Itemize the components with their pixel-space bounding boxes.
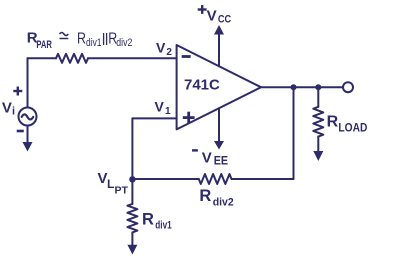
svg-text:PAR: PAR — [36, 39, 52, 51]
svg-text:R: R — [327, 114, 339, 131]
svg-text:CC: CC — [218, 14, 231, 26]
svg-text:R: R — [77, 30, 86, 47]
svg-text:div1: div1 — [155, 220, 171, 232]
svg-text:PT: PT — [115, 185, 129, 197]
svg-text:V: V — [202, 149, 212, 166]
svg-text:R: R — [199, 187, 211, 205]
svg-text:div2: div2 — [116, 37, 132, 49]
svg-text:div2: div2 — [213, 196, 234, 208]
svg-text:R: R — [142, 211, 154, 229]
svg-text:V: V — [156, 39, 166, 55]
svg-text:V: V — [2, 100, 12, 117]
svg-text:div1: div1 — [86, 37, 102, 49]
svg-text:LOAD: LOAD — [338, 123, 367, 135]
svg-text:2: 2 — [166, 47, 172, 58]
svg-text:1: 1 — [165, 106, 171, 117]
svg-text:V: V — [155, 99, 165, 115]
svg-text:L: L — [107, 177, 114, 191]
svg-text:741C: 741C — [184, 77, 220, 94]
svg-text:i: i — [12, 106, 15, 118]
svg-text:V: V — [207, 7, 217, 24]
svg-text:EE: EE — [214, 156, 229, 168]
svg-text:V: V — [98, 170, 108, 187]
